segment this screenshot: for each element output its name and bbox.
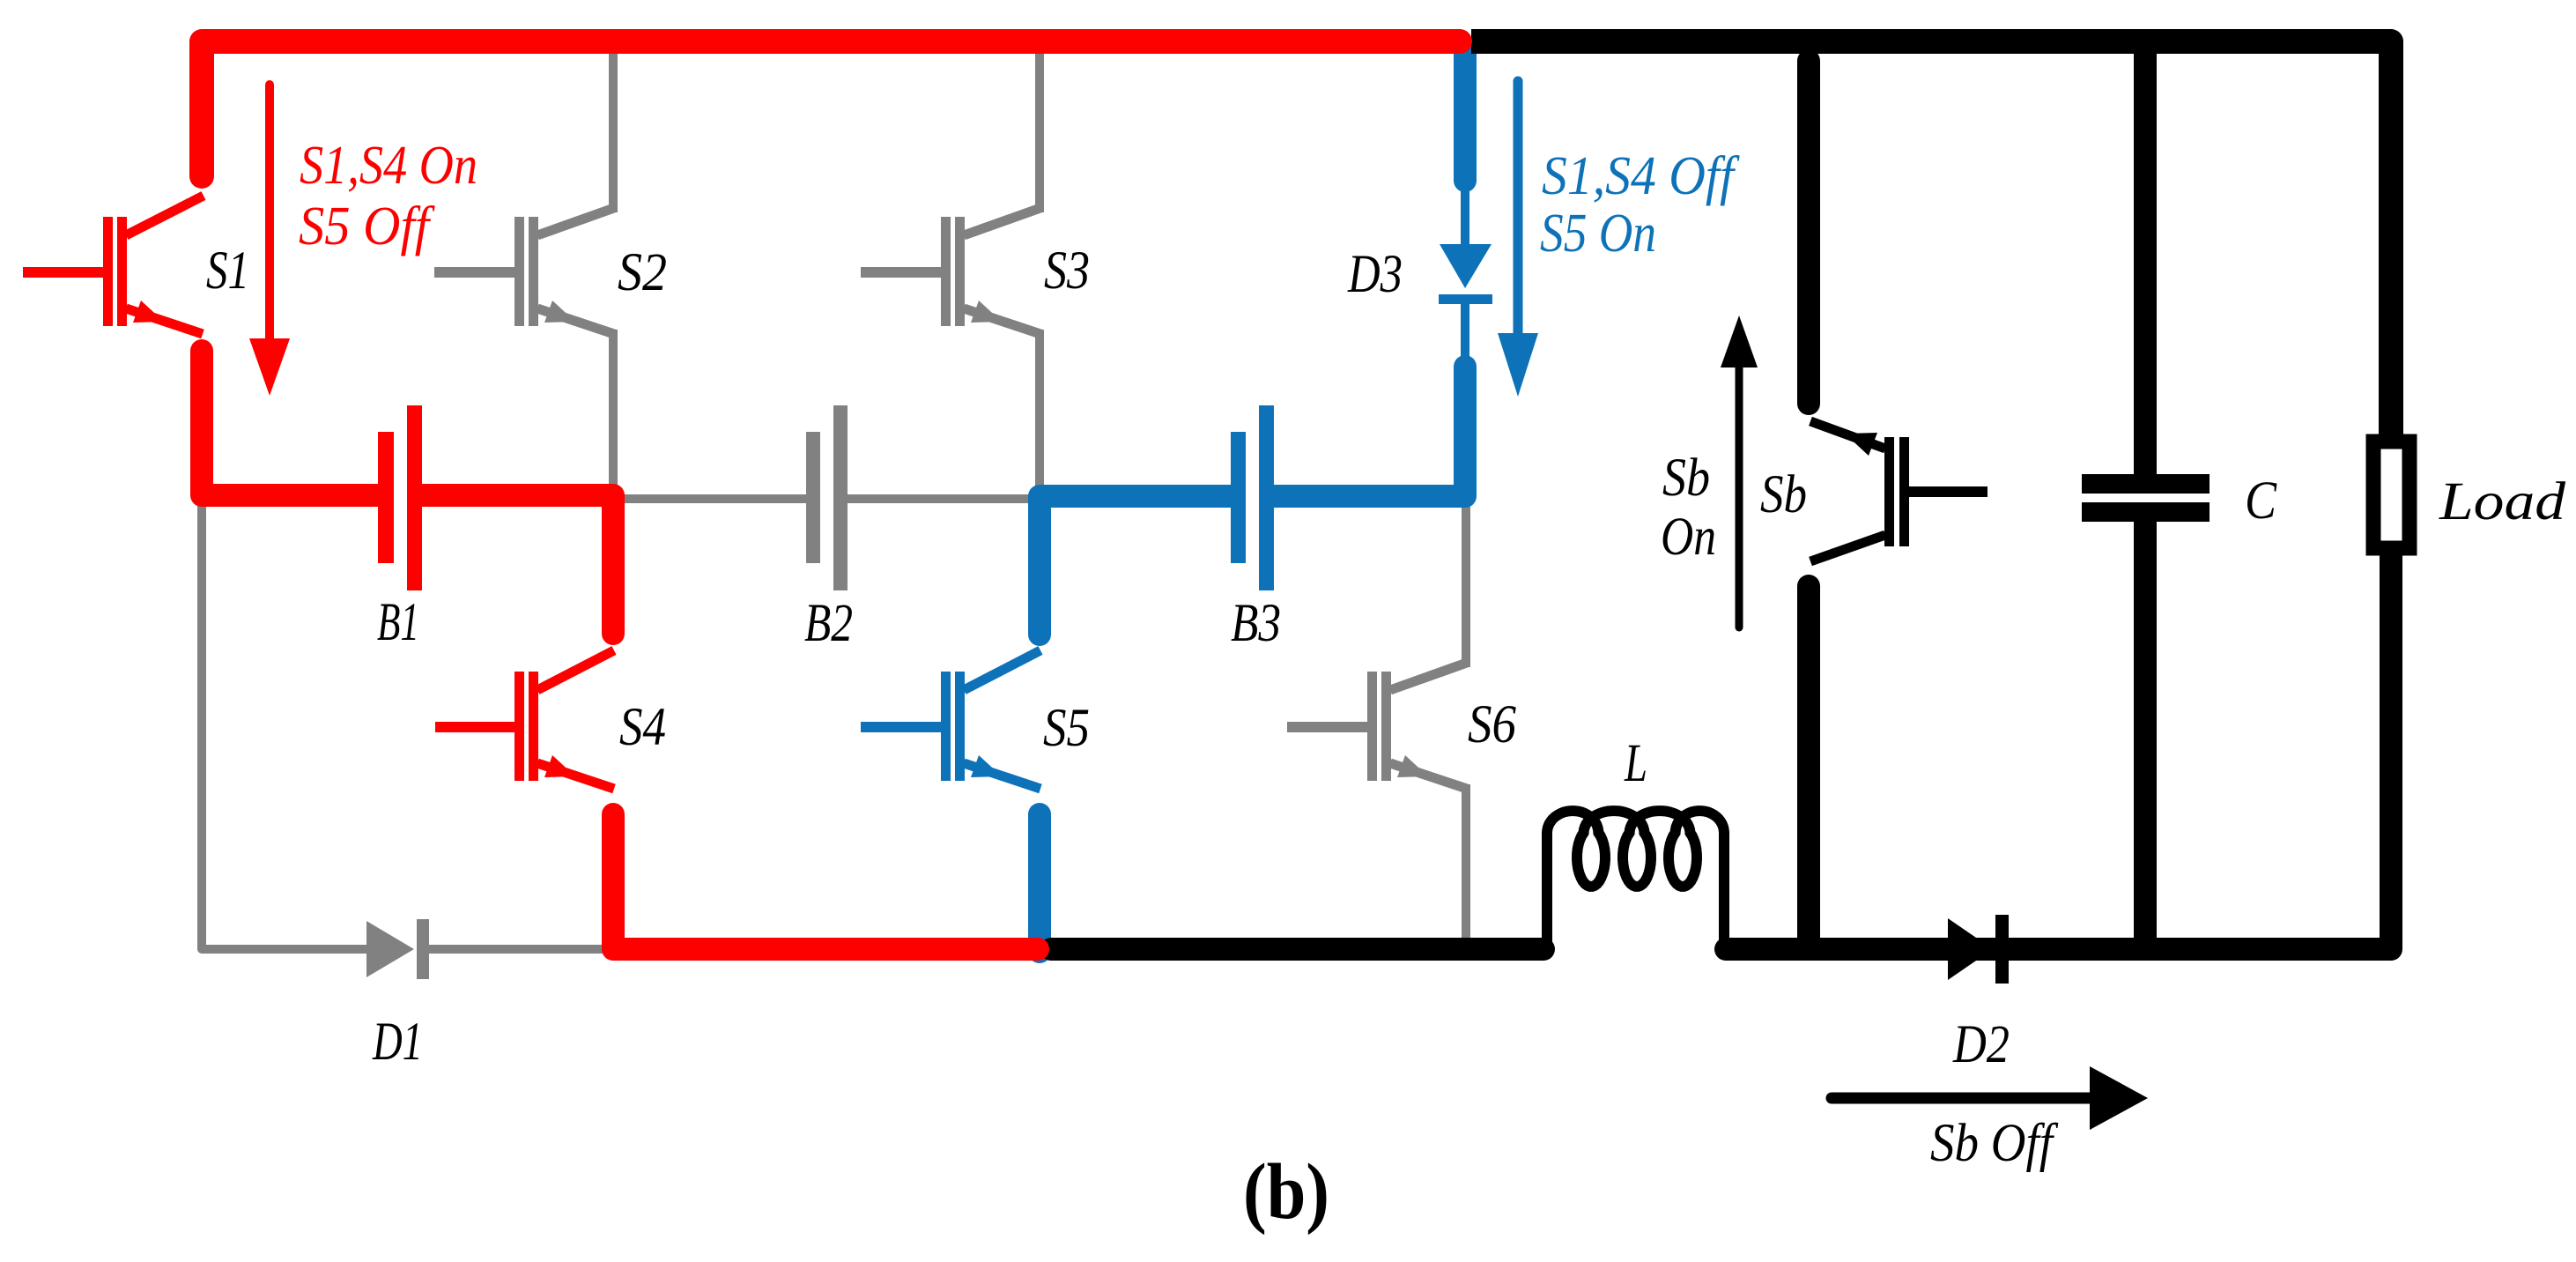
wire S3 collector column	[1035, 48, 1044, 212]
wire S2 collector column	[609, 48, 618, 212]
wire S1 emitter + B1 left	[202, 351, 378, 495]
svg-text:S1,S4 On: S1,S4 On	[300, 136, 477, 196]
wire B2 row right segment	[846, 494, 1040, 503]
svg-text:Sb: Sb	[1760, 465, 1807, 524]
wire Sb bottom stub	[1797, 586, 1820, 938]
svg-text:D2: D2	[1952, 1015, 2010, 1074]
wire Sb top stub	[1797, 61, 1820, 404]
battery B1	[378, 405, 422, 590]
svg-text:On: On	[1661, 508, 1716, 567]
svg-text:S4: S4	[619, 698, 666, 757]
wire B3 right + D3 bottom stub	[1274, 367, 1465, 496]
arrow blue current S5	[1498, 81, 1538, 397]
transistor S1	[23, 196, 204, 334]
svg-text:(b): (b)	[1243, 1148, 1329, 1236]
wire S2 emitter column	[609, 330, 618, 494]
capacitor C	[2082, 474, 2210, 522]
svg-text:S1: S1	[206, 241, 249, 301]
wire S5 emitter stub	[1028, 814, 1051, 952]
diode D2	[1948, 915, 2009, 984]
svg-text:Load: Load	[2439, 472, 2566, 531]
diode D3	[1439, 189, 1492, 361]
svg-text:S6: S6	[1468, 695, 1516, 754]
wire S4 emitter + bottom bus red	[613, 814, 1038, 949]
transistor S2	[434, 208, 614, 334]
diode D1	[366, 919, 429, 979]
arrow D2 Sb Off	[1832, 1066, 2148, 1130]
battery B3	[1231, 405, 1274, 590]
transistor S3	[861, 208, 1040, 334]
svg-text:D1: D1	[372, 1013, 423, 1072]
svg-text:C: C	[2245, 471, 2277, 531]
resistor Load	[2373, 442, 2409, 548]
wire top bus black	[1471, 41, 2391, 449]
svg-text:B1: B1	[377, 593, 419, 652]
diode D3 top stub	[1454, 48, 1477, 181]
wire top bus red + S1 collector	[202, 41, 1460, 176]
transistor S5	[861, 650, 1040, 789]
wire left column down + bottom left	[202, 504, 368, 949]
arrow Sb On	[1721, 315, 1758, 627]
arrow red current S1	[249, 85, 290, 396]
wire D1 to red corner	[428, 945, 610, 954]
svg-text:S2: S2	[618, 243, 667, 302]
svg-text:D3: D3	[1347, 245, 1403, 304]
wire S3 emitter column	[1035, 330, 1044, 495]
capacitor C wires	[2134, 54, 2157, 484]
svg-text:S5 Off: S5 Off	[299, 197, 435, 256]
svg-text:B3: B3	[1231, 594, 1281, 653]
wire bottom bus middle black	[1051, 938, 1543, 961]
inductor L	[1547, 811, 1724, 943]
battery B2	[806, 405, 848, 590]
svg-text:L: L	[1624, 734, 1647, 793]
svg-text:S1,S4 Off: S1,S4 Off	[1542, 146, 1740, 206]
wire bottom bus right + load column	[1726, 540, 2391, 949]
transistor Sb	[1810, 421, 1988, 561]
wire B1 right + S4 collector stub	[422, 495, 613, 634]
wire B2 row left segment	[617, 494, 808, 503]
wire B3 left to S5 junction	[1040, 496, 1231, 635]
svg-text:S3: S3	[1044, 241, 1090, 301]
transistor S6	[1287, 663, 1467, 789]
svg-text:S5: S5	[1043, 699, 1090, 758]
wire S6 collector column	[1462, 502, 1470, 667]
transistor S4	[435, 650, 614, 789]
svg-text:Sb Off: Sb Off	[1930, 1114, 2058, 1173]
svg-text:B2: B2	[804, 594, 853, 653]
svg-text:S5 On: S5 On	[1540, 204, 1656, 264]
wire S6 emitter column	[1462, 784, 1470, 945]
svg-text:Sb: Sb	[1662, 449, 1710, 508]
